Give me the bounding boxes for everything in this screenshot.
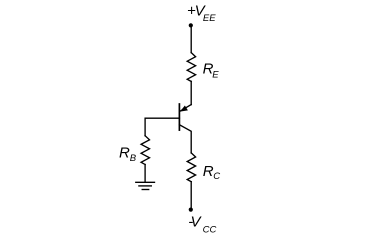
svg-text:EE: EE <box>203 13 216 24</box>
svg-text:R: R <box>119 145 130 162</box>
svg-text:V: V <box>191 214 203 231</box>
svg-text:E: E <box>212 70 219 81</box>
svg-text:R: R <box>203 163 214 180</box>
svg-text:B: B <box>130 153 137 164</box>
svg-text:CC: CC <box>203 225 217 236</box>
svg-text:C: C <box>213 171 220 182</box>
